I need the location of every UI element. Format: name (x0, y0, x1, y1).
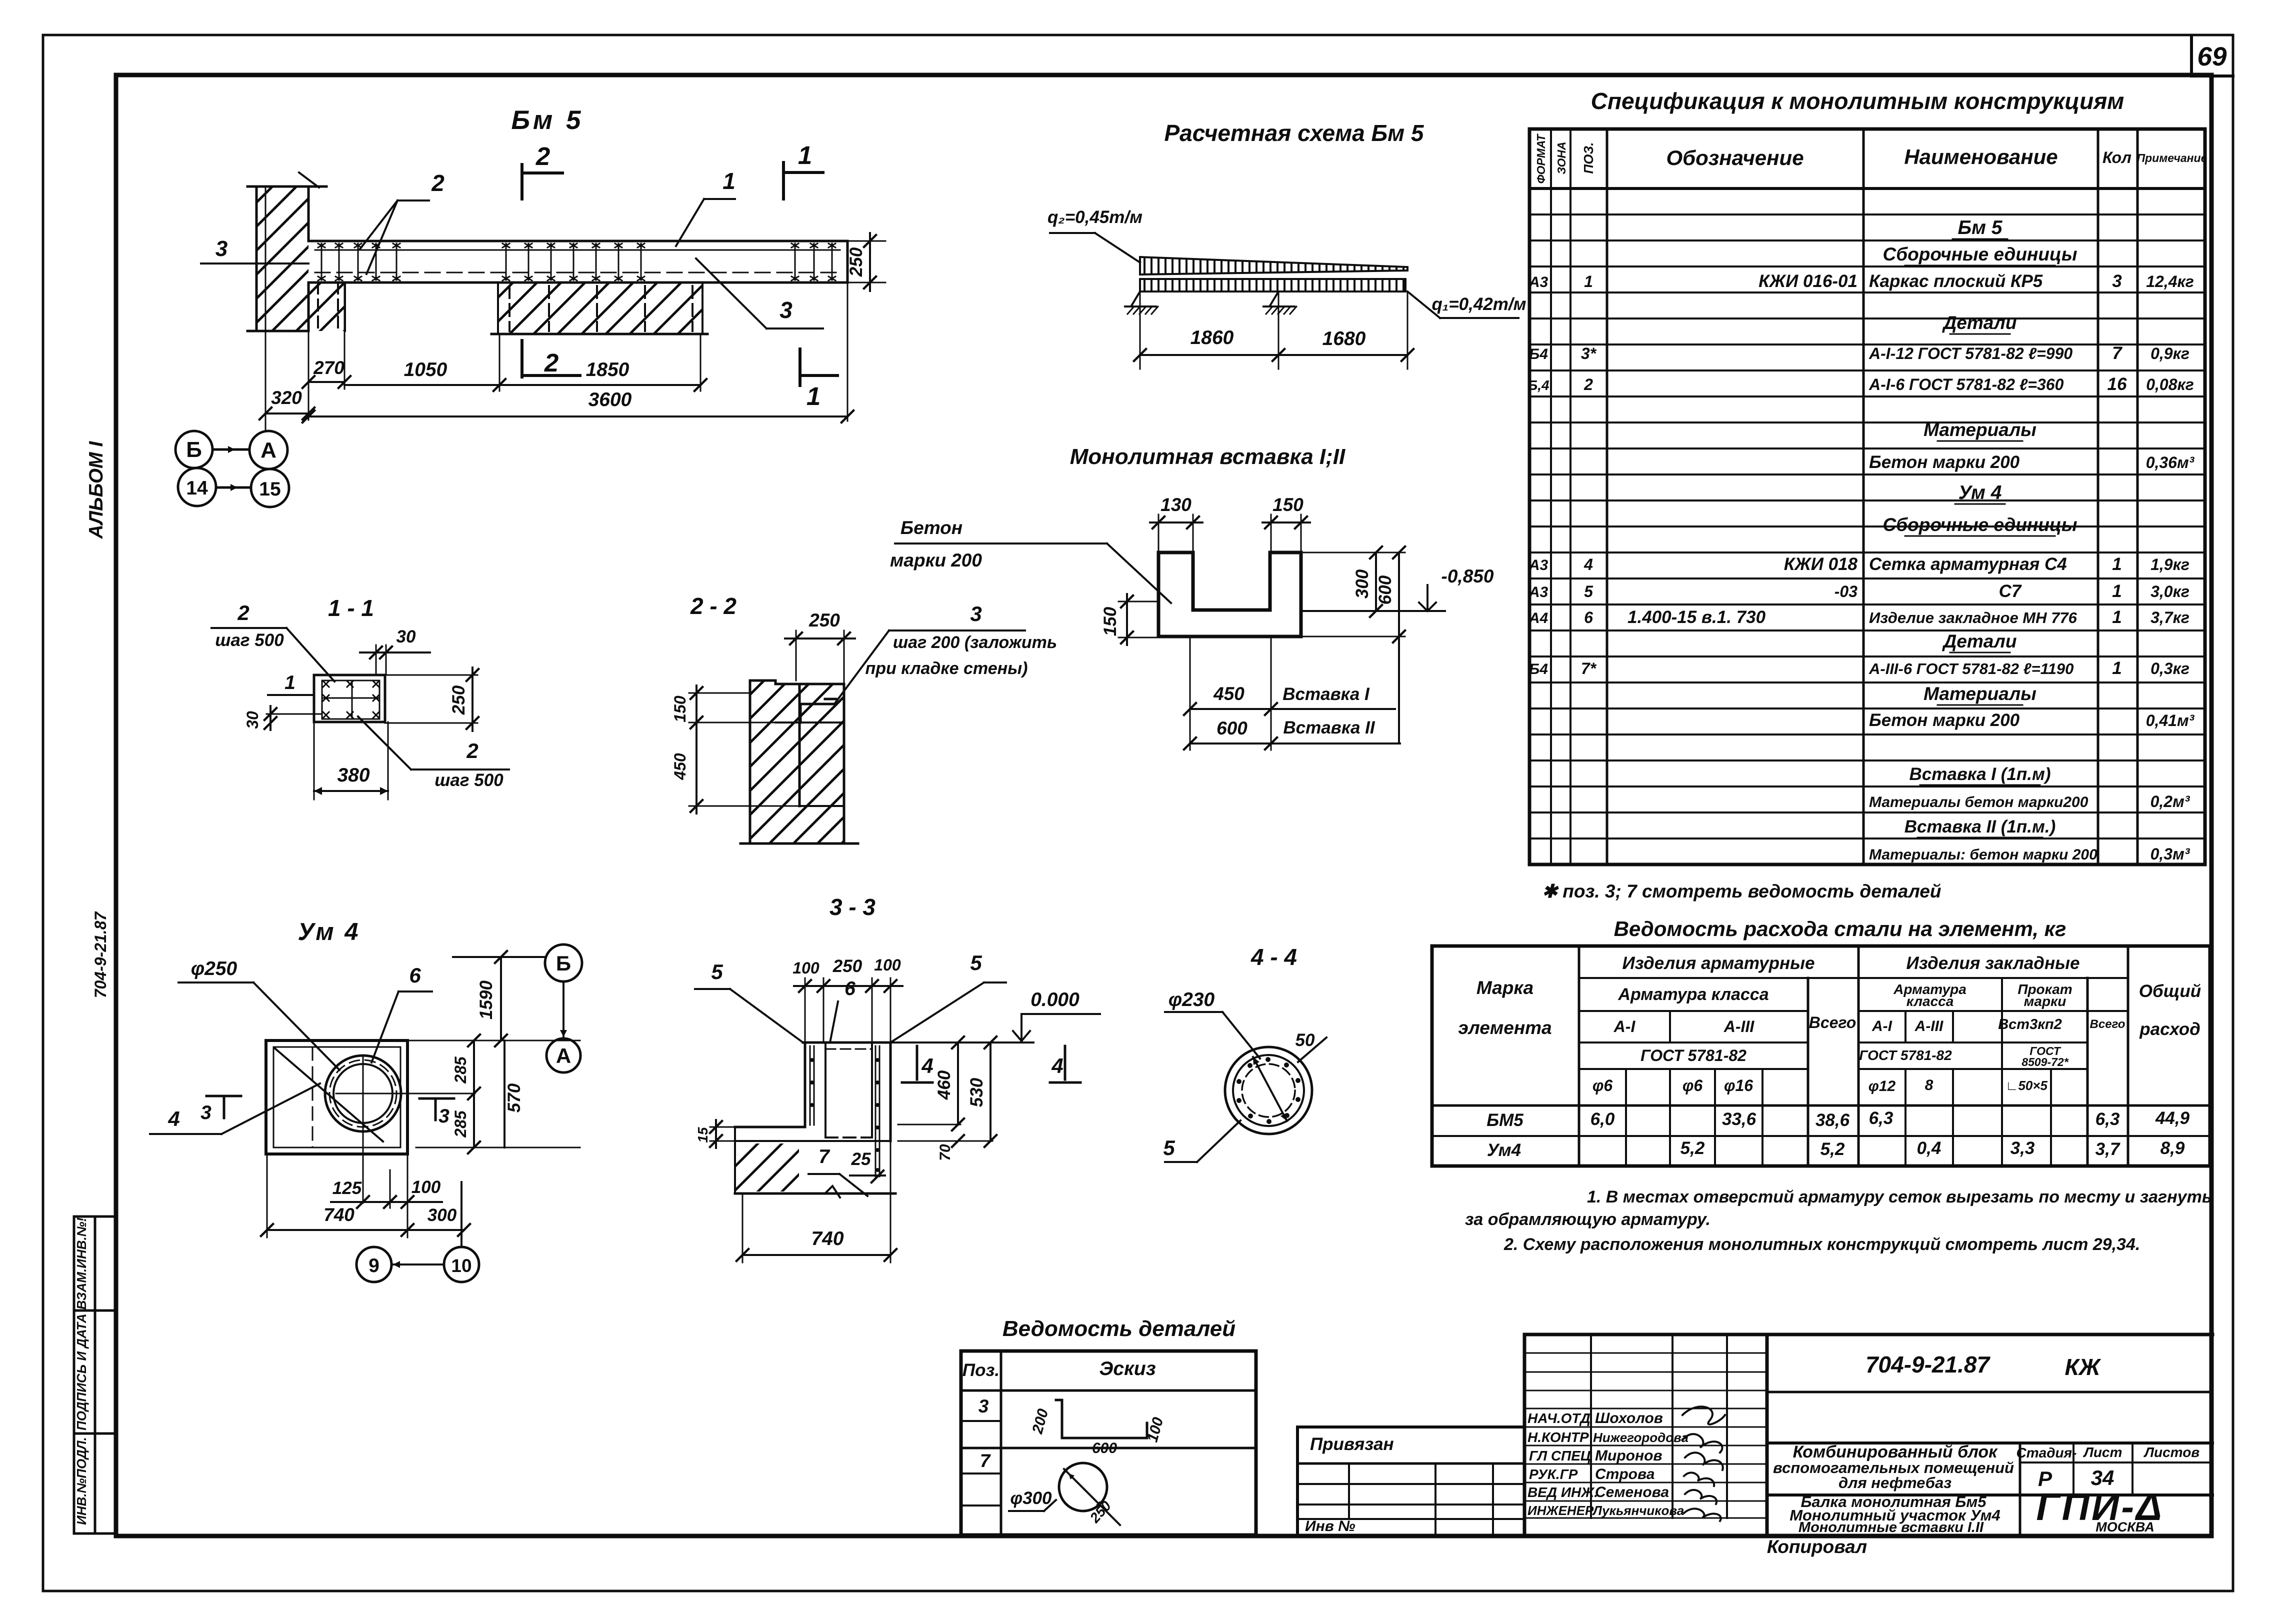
svg-text:ПОДПИСЬ И ДАТА: ПОДПИСЬ И ДАТА (74, 1313, 89, 1430)
svg-text:φ230: φ230 (1168, 989, 1215, 1010)
svg-text:Инв №: Инв № (1305, 1518, 1355, 1534)
svg-text:2: 2 (237, 601, 249, 624)
svg-text:3 - 3: 3 - 3 (829, 894, 875, 920)
dimension 1850 (499, 334, 706, 391)
steel table outer (1432, 946, 2210, 1166)
svg-text:А3: А3 (1528, 274, 1548, 290)
svg-text:7*: 7* (1581, 659, 1597, 677)
svg-text:100: 100 (1144, 1415, 1166, 1444)
svg-text:2: 2 (1583, 375, 1593, 393)
svg-text:Спецификация к монолитным ко: Спецификация к монолитным конструкциям (1591, 88, 2124, 114)
section 4-4 pipe rings (1225, 1047, 1312, 1134)
svg-text:Наименование: Наименование (1904, 145, 2057, 168)
svg-text:Б: Б (556, 951, 571, 975)
svg-text:3,7: 3,7 (2095, 1139, 2120, 1159)
rebar callout 1 (676, 168, 735, 246)
svg-text:класса: класса (1906, 993, 1954, 1009)
svg-text:Монолитные вставки I.II: Монолитные вставки I.II (1798, 1519, 1984, 1535)
svg-text:7: 7 (818, 1146, 830, 1167)
svg-text:25: 25 (851, 1149, 871, 1169)
svg-text:ЗОНА: ЗОНА (1555, 141, 1568, 174)
svg-text:при кладке стены): при кладке стены) (865, 659, 1028, 678)
svg-text:6,3: 6,3 (1869, 1108, 1893, 1128)
svg-text:1050: 1050 (404, 359, 447, 380)
dimension 150 insert left (1100, 594, 1158, 645)
position 3 row (978, 1396, 989, 1416)
svg-text:1: 1 (2112, 658, 2121, 678)
svg-text:Лукьянчикова: Лукьянчикова (1592, 1503, 1684, 1518)
dimension 570 Ум4 (416, 1040, 580, 1147)
svg-text:250: 250 (1086, 1498, 1114, 1526)
svg-text:Примечание: Примечание (2137, 151, 2207, 164)
spec row А-III-6 (1529, 658, 2189, 678)
dimension 150 section 2-2 (671, 685, 775, 730)
callout 5 left section 3-3 (695, 960, 803, 1042)
dimension 1590 Ум4 (407, 951, 580, 1046)
section flag 4 left Ум4 (150, 1083, 320, 1134)
svg-text:Миронов: Миронов (1595, 1447, 1662, 1464)
svg-text:300: 300 (427, 1205, 457, 1225)
general notes (1465, 1187, 2212, 1254)
spec row А-I-12 (1529, 343, 2189, 363)
svg-text:2: 2 (544, 348, 558, 377)
dimension 15 section 3-3 left (695, 1120, 735, 1148)
svg-text:3,0кг: 3,0кг (2150, 582, 2189, 600)
svg-text:1,9кг: 1,9кг (2150, 555, 2189, 573)
section flag 4 right 3-3 (1050, 1046, 1080, 1082)
title block signature grid (1524, 1334, 1767, 1518)
svg-text:1: 1 (798, 141, 812, 169)
spec row Вставка II (1904, 817, 2056, 837)
dimension 125 Ум4 (331, 1170, 396, 1208)
dimension 250 section 2-2 (785, 610, 855, 684)
svg-text:Шохолов: Шохолов (1595, 1410, 1663, 1426)
svg-text:Каркас плоский КР5: Каркас плоский КР5 (1869, 271, 2043, 291)
svg-text:А-III-6 ГОСТ 5781-82 ℓ=1190: А-III-6 ГОСТ 5781-82 ℓ=1190 (1868, 660, 2073, 677)
section 3-3 trough walls (803, 1042, 890, 1141)
spec row Детали 1 (1942, 312, 2017, 334)
svg-text:3: 3 (215, 236, 227, 261)
svg-text:∟50×5: ∟50×5 (2005, 1078, 2048, 1093)
svg-text:0.000: 0.000 (1030, 989, 1079, 1010)
bent bar sketch pos 3 (1029, 1400, 1166, 1456)
label 50 section 4-4 (1295, 1030, 1326, 1062)
svg-text:9: 9 (368, 1255, 379, 1276)
svg-text:Бетон: Бетон (900, 517, 962, 538)
Ум4 dashed axis lines (312, 1047, 475, 1203)
svg-text:3600: 3600 (588, 389, 632, 410)
svg-text:33,6: 33,6 (1722, 1109, 1756, 1129)
svg-text:3,7кг: 3,7кг (2150, 608, 2189, 626)
svg-text:3: 3 (779, 297, 792, 323)
signature names (1592, 1410, 1688, 1518)
svg-text:1. В местах отверстий арматур: 1. В местах отверстий арматуру сеток выр… (1587, 1187, 2212, 1206)
svg-text:5,2: 5,2 (1680, 1138, 1705, 1158)
dimension 285 lower Ум4 (451, 1093, 480, 1153)
svg-text:1: 1 (2112, 554, 2121, 574)
svg-text:7: 7 (2112, 343, 2122, 363)
svg-text:600: 600 (1216, 718, 1247, 738)
axis bubble А (249, 431, 287, 469)
dimension 740 section 3-3 (736, 1141, 896, 1262)
svg-text:для нефтебаз: для нефтебаз (1838, 1474, 1951, 1491)
svg-text:ИНВ.№ПОДЛ.: ИНВ.№ПОДЛ. (74, 1437, 89, 1525)
svg-text:Вставка II: Вставка II (1283, 718, 1375, 737)
spec row Бетон 200 second (1869, 710, 2195, 730)
svg-text:12,4кг: 12,4кг (2146, 272, 2194, 290)
svg-text:3: 3 (2112, 271, 2122, 291)
svg-text:Вставка I (1п.м): Вставка I (1п.м) (1909, 764, 2050, 784)
title section 3-3 (829, 894, 875, 920)
project name cell (1767, 1442, 2212, 1491)
svg-text:Ум4: Ум4 (1487, 1140, 1521, 1160)
section 4-4 diameter line (1253, 1057, 1287, 1121)
arrow Б to А (212, 446, 249, 453)
spec row Бм5 (1952, 217, 2007, 239)
spec row Материалы 2 (1923, 683, 2036, 705)
section flag 3 right Ум4 (419, 1098, 454, 1127)
callout 7 section 3-3 (808, 1146, 867, 1196)
svg-text:Изделие закладное МН 776: Изделие закладное МН 776 (1869, 609, 2077, 626)
monolithic insert hatched under beam (491, 282, 707, 334)
sheet name cell (1767, 1493, 2212, 1535)
svg-text:Изделия арматурные: Изделия арматурные (1622, 953, 1815, 973)
svg-text:460: 460 (934, 1070, 954, 1100)
svg-text:1590: 1590 (476, 980, 496, 1019)
title block outer (1524, 1334, 2212, 1535)
axis bubble 9 Ум4 (356, 1247, 391, 1282)
svg-text:6: 6 (1584, 608, 1593, 626)
svg-text:Всего: Всего (2090, 1017, 2125, 1031)
svg-text:150: 150 (671, 695, 689, 722)
svg-text:450: 450 (671, 753, 689, 780)
axis bubble Б (175, 431, 212, 468)
svg-text:704-9-21.87: 704-9-21.87 (91, 911, 109, 998)
svg-text:15: 15 (259, 478, 280, 500)
svg-text:ГОСТ 5781-82: ГОСТ 5781-82 (1640, 1046, 1746, 1064)
svg-text:3,3: 3,3 (2010, 1138, 2035, 1158)
organization ГПИ-6 (2036, 1485, 2163, 1534)
title Монолитная вставка I,II (1070, 444, 1345, 469)
section 4-4 rebar dots (1236, 1057, 1300, 1124)
svg-text:1: 1 (2112, 581, 2121, 601)
label φ230 section 4-4 (1165, 989, 1260, 1058)
svg-text:Б4: Б4 (1529, 346, 1548, 362)
svg-text:С7: С7 (1999, 581, 2022, 601)
specification table grid (1529, 129, 2205, 864)
svg-text:-0,850: -0,850 (1441, 566, 1494, 586)
dimension 600 insert (1301, 546, 1405, 743)
svg-text:✱ поз. 3; 7 смотреть ведомо: ✱ поз. 3; 7 смотреть ведомость деталей (1542, 881, 1941, 901)
spec row материалы бетон I (1869, 792, 2190, 810)
details table header (962, 1358, 1156, 1380)
spec row Бетон 200 first (1869, 452, 2195, 472)
svg-text:3: 3 (200, 1102, 211, 1123)
dimension 270 (302, 282, 350, 420)
dimension 450 section 2-2 (671, 722, 799, 813)
label 704-9-21.87 rotated (91, 911, 109, 998)
Ум4 diagonal (274, 1048, 383, 1141)
svg-text:15: 15 (695, 1127, 710, 1143)
svg-text:Поз.: Поз. (962, 1360, 999, 1380)
svg-text:250: 250 (846, 247, 866, 277)
svg-text:А-I: А-I (1871, 1018, 1892, 1034)
masonry wall hatched (247, 172, 326, 331)
dimension 740 Ум4 (261, 1154, 413, 1237)
svg-text:-03: -03 (1834, 582, 1857, 600)
spec row Вставка I (1909, 764, 2050, 785)
dimension 30 left bottom (243, 706, 322, 730)
svg-text:2: 2 (535, 142, 550, 170)
svg-text:Вставка I: Вставка I (1282, 684, 1370, 704)
dimension 320 (259, 186, 314, 431)
title section 4-4 (1250, 944, 1297, 970)
svg-text:Ум 4: Ум 4 (1958, 482, 2002, 503)
svg-text:Материалы: Материалы (1923, 683, 2036, 704)
svg-text:Семенова: Семенова (1595, 1484, 1669, 1500)
svg-text:ИНЖЕНЕР: ИНЖЕНЕР (1527, 1503, 1594, 1518)
section flag 2 top (522, 142, 562, 199)
dimension 250 section 1-1 (385, 667, 478, 731)
svg-text:6,3: 6,3 (2095, 1109, 2120, 1129)
svg-text:Б4: Б4 (1529, 661, 1548, 677)
svg-text:А4: А4 (1528, 610, 1548, 626)
dimension 150 insert top (1262, 494, 1310, 552)
svg-text:АЛЬБОМ I: АЛЬБОМ I (85, 441, 107, 539)
label 6 Ум4 (371, 963, 432, 1062)
dimension 380 (314, 722, 388, 799)
svg-text:Бм 5: Бм 5 (1958, 217, 2003, 238)
svg-text:φ12: φ12 (1868, 1078, 1896, 1094)
svg-text:Сборочные единицы: Сборочные единицы (1883, 244, 2077, 264)
leader 3 left wall (201, 236, 308, 263)
arrow 14 to 15 (216, 484, 251, 491)
svg-text:Б,4: Б,4 (1527, 377, 1549, 393)
document number 704-9-21.87 (1767, 1351, 2212, 1392)
svg-text:740: 740 (323, 1204, 354, 1225)
svg-text:Лист: Лист (2083, 1444, 2122, 1460)
dimension 130 insert (1150, 494, 1202, 552)
svg-text:130: 130 (1160, 494, 1191, 515)
svg-text:КЖИ 018: КЖИ 018 (1784, 554, 1858, 574)
svg-text:0,08кг: 0,08кг (2146, 375, 2194, 393)
svg-text:1: 1 (2112, 607, 2121, 627)
dimension 285 upper Ум4 (451, 1034, 480, 1099)
svg-text:200: 200 (1029, 1407, 1051, 1436)
section 3-3 rebar (810, 1046, 879, 1176)
svg-text:Бм 5: Бм 5 (511, 105, 584, 135)
title Расчетная схема Бм5 (1164, 120, 1424, 146)
svg-text:4: 4 (921, 1054, 933, 1077)
svg-text:0,36м³: 0,36м³ (2146, 453, 2195, 471)
svg-text:НАЧ.ОТД: НАЧ.ОТД (1527, 1410, 1590, 1426)
svg-text:1: 1 (1584, 272, 1593, 290)
rebar callout 2 (360, 170, 444, 274)
svg-text:Бетон марки 200: Бетон марки 200 (1869, 452, 2020, 472)
svg-text:РУК.ГР: РУК.ГР (1529, 1466, 1578, 1482)
svg-text:30: 30 (396, 627, 416, 646)
title Бм 5 (511, 105, 584, 135)
svg-text:Б: Б (186, 437, 202, 462)
svg-text:ВЕД ИНЖ.: ВЕД ИНЖ. (1527, 1484, 1598, 1500)
svg-text:0,3м³: 0,3м³ (2150, 845, 2190, 863)
svg-text:ПОЗ.: ПОЗ. (1581, 142, 1596, 174)
svg-text:А-III: А-III (1723, 1017, 1755, 1035)
svg-text:q₂=0,45т/м: q₂=0,45т/м (1047, 207, 1142, 227)
spec row А-I-6 (1527, 374, 2193, 394)
sheet number box 69 (2191, 36, 2233, 76)
svg-text:5: 5 (970, 951, 982, 974)
svg-text:3*: 3* (1581, 344, 1597, 362)
label Инв № (1305, 1518, 1355, 1534)
svg-text:4 - 4: 4 - 4 (1250, 944, 1297, 970)
svg-text:А-I-12 ГОСТ 5781-82 ℓ=990: А-I-12 ГОСТ 5781-82 ℓ=990 (1868, 344, 2072, 362)
svg-text:Стадия-: Стадия- (2016, 1445, 2077, 1460)
axis bubble 15 (251, 469, 289, 507)
svg-text:69: 69 (2197, 42, 2227, 71)
svg-text:ВЗАМ.ИНВ.№!: ВЗАМ.ИНВ.№! (74, 1217, 89, 1309)
svg-text:Ведомость расхода стали на: Ведомость расхода стали на элемент, кг (1614, 917, 2066, 940)
svg-text:30: 30 (243, 711, 261, 729)
svg-text:6: 6 (409, 963, 421, 987)
load q2 label (1047, 207, 1142, 262)
svg-text:за обрамляющую арматуру.: за обрамляющую арматуру. (1465, 1210, 1710, 1229)
label Альбом I (85, 441, 107, 539)
svg-text:5,2: 5,2 (1820, 1139, 1845, 1159)
beam longitudinal rebar (315, 250, 840, 272)
svg-text:шаг 200 (заложить: шаг 200 (заложить (893, 633, 1057, 652)
schema dimension 1860 (1134, 291, 1284, 369)
callout 6 section 3-3 (830, 978, 855, 1042)
svg-text:38,6: 38,6 (1815, 1110, 1850, 1130)
svg-text:250: 250 (449, 685, 468, 715)
section 1-1 concrete outline (314, 675, 385, 722)
callout 1 section 1-1 (268, 672, 314, 695)
section 1-1 rebar cage (322, 680, 379, 719)
svg-text:250: 250 (832, 956, 862, 976)
dimension 460 section 3-3 (898, 1036, 964, 1130)
svg-text:БМ5: БМ5 (1486, 1110, 1523, 1130)
svg-text:0,41м³: 0,41м³ (2146, 711, 2195, 729)
steel table row Ум4 (1487, 1138, 2185, 1160)
svg-text:1: 1 (806, 382, 820, 410)
svg-text:А3: А3 (1528, 557, 1548, 573)
svg-text:285: 285 (451, 1056, 469, 1084)
svg-text:Детали: Детали (1942, 312, 2017, 333)
svg-text:А3: А3 (1528, 584, 1548, 600)
svg-text:φ250: φ250 (191, 958, 237, 979)
svg-text:6,0: 6,0 (1590, 1109, 1615, 1129)
axis bubble 14 (178, 468, 216, 506)
svg-text:1680: 1680 (1322, 328, 1366, 349)
svg-text:50: 50 (1295, 1030, 1315, 1050)
support middle (1263, 291, 1296, 314)
svg-text:2: 2 (466, 739, 478, 762)
svg-text:КЖ: КЖ (2065, 1354, 2101, 1380)
svg-text:8: 8 (1925, 1077, 1933, 1093)
svg-text:1850: 1850 (586, 359, 629, 380)
svg-text:Арматура класса: Арматура класса (1617, 985, 1768, 1004)
svg-text:0,2м³: 0,2м³ (2150, 792, 2190, 810)
svg-text:4: 4 (167, 1107, 179, 1130)
svg-text:5: 5 (711, 960, 723, 983)
svg-text:3: 3 (978, 1396, 989, 1416)
title Ведомость деталей (1002, 1316, 1235, 1341)
note поз 3 7 (1542, 881, 1941, 901)
spec row Сборочные единицы 2 (1883, 514, 2077, 536)
svg-text:8509-72*: 8509-72* (2021, 1055, 2068, 1068)
svg-text:600: 600 (1092, 1440, 1117, 1456)
svg-text:Н.КОНТР: Н.КОНТР (1527, 1429, 1589, 1445)
callout 2 шаг 500 lower (358, 716, 509, 790)
spec row Сборочные единицы 1 (1883, 244, 2077, 265)
arrow 10 to 9 Ум4 (393, 1182, 461, 1268)
svg-text:Марка: Марка (1476, 977, 1533, 998)
svg-text:Сборочные единицы: Сборочные единицы (1883, 514, 2077, 535)
dimension 250 beam height (846, 233, 885, 291)
svg-text:2. Схему расположения монолит: 2. Схему расположения монолитных констру… (1503, 1235, 2140, 1254)
dimension 100 Ум4 (390, 1154, 442, 1237)
svg-text:285: 285 (451, 1110, 469, 1138)
svg-text:1860: 1860 (1190, 327, 1234, 348)
svg-text:Детали: Детали (1942, 631, 2017, 651)
insert variant dimensions 450 600 (1184, 636, 1400, 750)
spec row Ум4 (1955, 482, 2005, 504)
svg-text:Общий: Общий (2139, 981, 2201, 1001)
dimension 30 top (360, 627, 430, 675)
svg-text:2: 2 (431, 170, 444, 196)
svg-text:70: 70 (937, 1144, 953, 1161)
section flag 3 left Ум4 (200, 1096, 241, 1123)
arrow Б to А Ум4 (560, 981, 567, 1037)
schema dimension 1680 (1278, 291, 1413, 369)
spec row Сетка С4 (1528, 554, 2189, 574)
svg-text:2 - 2: 2 - 2 (690, 593, 736, 619)
svg-text:Копировал: Копировал (1767, 1536, 1867, 1557)
копировал label (1767, 1536, 1867, 1557)
svg-text:элемента: элемента (1458, 1017, 1551, 1038)
svg-text:Строва: Строва (1595, 1466, 1654, 1482)
beam stirrups (318, 243, 835, 280)
svg-text:Материалы: бетон марки 200: Материалы: бетон марки 200 (1869, 846, 2097, 863)
callout 3 шаг 200 (835, 602, 1057, 702)
svg-text:570: 570 (504, 1083, 524, 1112)
Ум4 slab outline (266, 1040, 407, 1154)
svg-text:Бетон марки 200: Бетон марки 200 (1869, 710, 2020, 730)
svg-text:1 - 1: 1 - 1 (328, 595, 374, 621)
svg-text:Обозначение: Обозначение (1666, 146, 1803, 169)
svg-text:Ум 4: Ум 4 (297, 918, 360, 945)
svg-text:3: 3 (438, 1105, 449, 1127)
dimension 300 Ум4 (407, 1205, 470, 1236)
spec row материалы бетон II (1869, 845, 2190, 863)
svg-text:100: 100 (411, 1177, 441, 1197)
svg-text:ГЛ СПЕЦ: ГЛ СПЕЦ (1529, 1448, 1590, 1463)
circle sketch pos 7 (1009, 1463, 1120, 1526)
callout 2 шаг 500 upper (211, 601, 334, 681)
spec row С7 (1528, 581, 2189, 601)
svg-text:0,4: 0,4 (1917, 1138, 1941, 1158)
svg-text:1: 1 (722, 168, 735, 194)
svg-text:Нижегородова: Нижегородова (1593, 1430, 1688, 1445)
section flag 1 bottom (800, 349, 837, 410)
svg-text:10: 10 (451, 1255, 471, 1276)
svg-text:марки 200: марки 200 (890, 550, 982, 570)
svg-text:14: 14 (186, 477, 208, 499)
dimension 1050 (344, 334, 505, 391)
svg-text:Сетка арматурная С4: Сетка арматурная С4 (1869, 554, 2067, 574)
spec row Каркас плоский (1528, 271, 2194, 291)
